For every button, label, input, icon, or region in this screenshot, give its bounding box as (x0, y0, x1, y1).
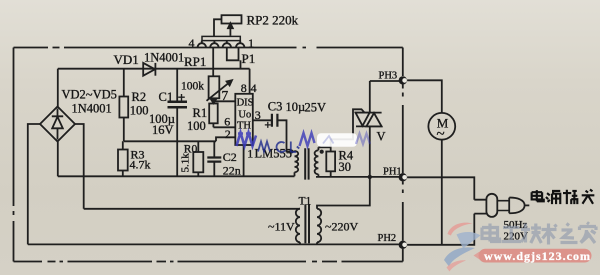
watermark navy small text row (258, 142, 299, 153)
terminal PH1 (399, 173, 407, 181)
watermark white box (317, 133, 357, 147)
wire triac top to PH3 (370, 80, 400, 82)
svg-text:25V: 25V (305, 101, 327, 115)
svg-text:TH: TH (237, 121, 251, 132)
svg-text:P1: P1 (242, 51, 256, 66)
wire bottom rail to PH2 (28, 243, 400, 245)
svg-text:4: 4 (251, 81, 257, 95)
connector P1 bus bar (202, 36, 240, 40)
svg-text:4.7k: 4.7k (130, 158, 151, 172)
capacitor C2 (207, 141, 221, 176)
wire pin 2 lead (216, 137, 235, 141)
potentiometer RP2 220k (214, 15, 242, 36)
junction dot secondary top (320, 150, 324, 154)
watermark logo swoosh (444, 223, 481, 272)
wire ground rail left (58, 175, 295, 177)
svg-text:16V: 16V (152, 123, 174, 137)
resistor R4 (326, 147, 335, 177)
svg-text:R1: R1 (193, 106, 208, 120)
terminal PH3 (399, 76, 407, 84)
dash-dot enclosure bottom edge (14, 261, 403, 263)
label 电源插头 (power plug) (532, 190, 595, 205)
svg-text:C2: C2 (223, 150, 237, 164)
transformer T1 (296, 204, 321, 244)
svg-text:2: 2 (225, 127, 231, 141)
svg-text:C3: C3 (268, 100, 283, 114)
wire PH2 rail to plug lower prong (407, 214, 474, 245)
junction RP1 wiper / R1 top (211, 99, 217, 104)
wire pin 3 lead (253, 119, 272, 121)
triac V (355, 81, 382, 177)
potentiometer RP1 (207, 76, 233, 101)
svg-text:1N4001: 1N4001 (144, 51, 184, 65)
wire AC rail to T1 secondary top (84, 208, 300, 210)
resistor R0 (193, 141, 203, 176)
svg-text:10µ: 10µ (286, 100, 306, 114)
junction dot triac cathode rail (368, 175, 372, 179)
wire C3 to pulse transformer primary (277, 120, 294, 151)
svg-text:100: 100 (130, 104, 149, 118)
pulse transformer core (305, 148, 308, 179)
pulse transformer primary winding (295, 151, 299, 176)
wire bridge left corner to bottom rail (28, 124, 40, 244)
svg-text:~220V: ~220V (325, 220, 358, 234)
wire P1 jumper bracket pins 1-2 (227, 48, 239, 61)
dash-dot enclosure top edge (14, 47, 403, 49)
resistor R2 (119, 69, 128, 142)
wire PH1 to plug upper prong (407, 177, 474, 199)
dash-dot enclosure right edge with PH terminals (402, 48, 404, 262)
wire secondary top to R4 (318, 146, 330, 148)
pulse transformer secondary winding (315, 147, 319, 177)
svg-text:Uo: Uo (238, 110, 251, 121)
svg-text:100: 100 (187, 119, 206, 133)
svg-text:22n: 22n (223, 164, 241, 178)
watermark faint mark in white box (323, 136, 334, 144)
svg-text:VD1: VD1 (114, 52, 139, 67)
wire Vcc top rail (58, 68, 250, 70)
wire top rail to bridge top (57, 69, 59, 107)
junction dot primary top (289, 149, 293, 153)
wire 220V primary top to PH1 node (317, 177, 370, 209)
resistor R1 (209, 104, 218, 128)
wire bridge right corner to AC rail (75, 124, 84, 209)
watermark blue brush mark left (237, 133, 257, 147)
watermark faint blue mark right (356, 134, 370, 145)
svg-text:5.1k: 5.1k (180, 153, 192, 173)
wire motor to PH2 rail (441, 140, 443, 245)
svg-text:7: 7 (222, 88, 229, 103)
capacitor C1 (168, 69, 188, 177)
svg-text:30: 30 (339, 160, 352, 174)
wire P1 pin2 to RP1 top (212, 48, 214, 77)
svg-text:www.dgjs123.com: www.dgjs123.com (484, 249, 591, 263)
motor M (428, 113, 455, 140)
capacitor C3 (265, 114, 278, 128)
wire gate branch (331, 109, 365, 147)
wire timing node rail (124, 140, 216, 142)
svg-text:DIS: DIS (237, 98, 254, 109)
watermark blue brush mark middle (300, 133, 315, 146)
connector P1 contact humps (198, 41, 245, 48)
svg-text:~: ~ (437, 127, 445, 143)
watermark 电工技术之家 gray text (482, 223, 596, 245)
svg-text:PH1: PH1 (383, 167, 402, 178)
svg-text:8: 8 (241, 81, 247, 95)
svg-text:RP2 220k: RP2 220k (247, 13, 299, 28)
svg-text:C1: C1 (159, 90, 174, 104)
svg-text:VD2~VD5: VD2~VD5 (62, 88, 117, 102)
wire bridge bottom to ground rail (57, 142, 59, 177)
svg-text:1: 1 (248, 36, 254, 50)
op-amp timer U1 LM555 body (235, 94, 253, 145)
svg-text:RP1: RP1 (184, 54, 206, 69)
wire pin 1 to ground rail (243, 145, 245, 176)
svg-text:1N4001: 1N4001 (72, 102, 112, 116)
svg-text:4: 4 (189, 36, 195, 50)
dash-dot enclosure left edge (13, 48, 15, 262)
wire pin 7 lead (214, 100, 236, 102)
power plug 电源插头 (474, 194, 529, 217)
wire gate circuit rail to PH1 (316, 176, 400, 178)
diode VD1 (143, 63, 155, 76)
svg-text:V: V (377, 130, 386, 144)
wire PH3 to motor (407, 80, 442, 113)
wire jumper to Vcc rail (240, 60, 242, 68)
wire Vcc rail to 555 pins 8 4 (249, 69, 251, 94)
svg-text:PH3: PH3 (379, 71, 398, 82)
resistor R3 (118, 141, 128, 176)
svg-text:PH2: PH2 (378, 233, 397, 244)
svg-text:T1: T1 (299, 196, 312, 208)
bridge rectifier VD2~VD5 (40, 107, 75, 142)
watermark www.dgjs123.com pill (474, 249, 592, 263)
terminal PH2 (399, 241, 407, 249)
svg-text:~11V: ~11V (268, 220, 295, 234)
svg-text:R2: R2 (132, 90, 147, 104)
wire pin 6 lead (213, 126, 235, 128)
svg-text:100k: 100k (181, 81, 204, 93)
